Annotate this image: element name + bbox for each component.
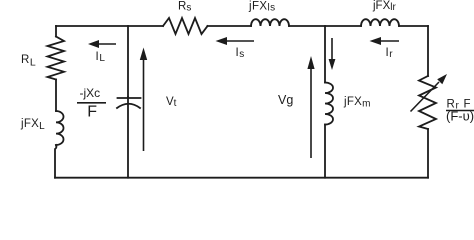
wire capacitor branch lower — [127, 97, 129, 178]
arrow Ir — [370, 37, 400, 45]
svg-text:Is: Is — [236, 47, 245, 60]
fraction bar -jXc/F — [77, 102, 106, 104]
capacitor -jXc/F top plate — [118, 97, 141, 99]
wire between jFXls and jFXlr — [289, 25, 361, 27]
svg-text:IL: IL — [96, 51, 106, 64]
arrow magnetizing current — [329, 38, 336, 70]
arrow IL — [88, 40, 116, 48]
arrow variable resistor Rr — [411, 74, 448, 112]
svg-text:jFXls: jFXls — [248, 1, 275, 14]
svg-text:(F-υ): (F-υ) — [446, 109, 474, 124]
wire right vertical upper — [427, 26, 429, 76]
wire top right segment — [399, 25, 428, 27]
resistor Rr variable zigzag — [419, 76, 436, 129]
arrow Vt — [140, 48, 147, 152]
svg-text:Vt: Vt — [166, 96, 177, 109]
svg-text:Vg: Vg — [278, 93, 293, 107]
inductor jFXm — [325, 83, 333, 125]
arrow Is — [216, 37, 255, 45]
wire bottom — [55, 177, 428, 179]
inductor jFXL — [56, 111, 64, 145]
wire left vertical bottom lead — [55, 145, 56, 178]
wire between RL and jFXL — [55, 80, 57, 112]
svg-text:Rs: Rs — [178, 1, 191, 14]
svg-text:RL: RL — [21, 54, 36, 69]
svg-text:jFXlr: jFXlr — [372, 0, 396, 13]
svg-text:F: F — [87, 104, 97, 121]
svg-text:jFXL: jFXL — [20, 118, 45, 132]
capacitor -jXc/F curved plate — [117, 104, 140, 108]
inductor jFXlr — [361, 19, 399, 26]
wire capacitor branch upper — [127, 26, 129, 97]
wire magnetizing branch upper — [324, 26, 326, 83]
inductor jFXls — [251, 19, 289, 26]
wire left vertical top lead — [55, 26, 57, 37]
wire magnetizing branch lower — [324, 125, 326, 178]
wire between Rs and jFXls — [208, 25, 252, 27]
svg-text:-jXc: -jXc — [80, 86, 101, 100]
fraction bar Rr F/(F-v) — [446, 110, 474, 112]
wire right vertical lower — [427, 129, 429, 178]
svg-text:jFXm: jFXm — [343, 96, 371, 110]
resistor Rs — [163, 18, 208, 34]
svg-text:Ir: Ir — [386, 47, 394, 60]
arrow Vg — [307, 56, 314, 158]
wire top left segment — [56, 25, 163, 27]
resistor RL — [48, 37, 65, 80]
